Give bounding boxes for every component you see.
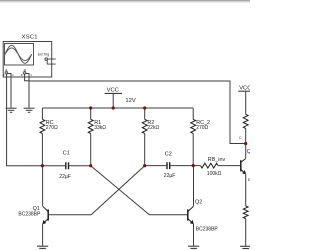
transistor Q1 BC238BP	[18, 206, 48, 224]
ground under Q2	[188, 246, 199, 250]
svg-text:XSC1: XSC1	[22, 34, 38, 40]
node inverter output	[244, 142, 247, 145]
oscilloscope XSC1 body	[3, 42, 52, 78]
node Q2 collector/C2/RB_inv	[192, 164, 195, 167]
wire R1 top lead	[90, 108, 92, 119]
ground under scope B	[24, 108, 35, 112]
wire RC top lead	[41, 108, 43, 119]
svg-text:33kΩ: 33kΩ	[94, 125, 106, 131]
wire Q1 collector lead	[42, 166, 44, 206]
wire VCC rail	[42, 107, 193, 109]
wire RB_inv to Q3 base	[218, 165, 240, 167]
oscilloscope channel A terminal	[3, 69, 14, 76]
wire RC_2 bottom lead	[192, 134, 194, 166]
svg-text:E: E	[248, 178, 250, 182]
svg-text:VCC: VCC	[107, 87, 119, 93]
wire cross-couple C2 node to Q1 base	[49, 166, 145, 215]
capacitor C2 22uF	[164, 151, 176, 179]
ground under scope A	[6, 108, 17, 112]
wire A- to ground	[8, 74, 11, 108]
node R1/VCC rail junction	[89, 106, 92, 109]
wire RC_2 top lead	[192, 108, 194, 119]
transistor Q3	[241, 149, 254, 174]
svg-text:22kΩ: 22kΩ	[147, 125, 159, 131]
svg-text:12V: 12V	[125, 98, 135, 104]
node Q1 collector/C1	[41, 164, 44, 167]
capacitor C1 22uF	[59, 150, 71, 180]
node R2/VCC rail junction	[143, 106, 146, 109]
power VCC (inverter branch)	[238, 86, 252, 115]
wire C2 node line	[145, 165, 194, 167]
wire load resistor to output node	[245, 128, 247, 143]
resistor R2 22k	[142, 119, 159, 133]
svg-text:100kΩ: 100kΩ	[207, 171, 222, 177]
resistor RB_inv 100k	[201, 157, 226, 177]
svg-text:BC238BP: BC238BP	[196, 226, 219, 232]
svg-text:BC238BP: BC238BP	[18, 212, 41, 218]
transistor Q2 BC238BP	[188, 200, 219, 233]
ground under Q3	[240, 246, 251, 250]
wire R1 bottom lead	[90, 134, 92, 166]
svg-text:270Ω: 270Ω	[46, 125, 58, 131]
wire Q1 emitter lead	[42, 224, 44, 246]
svg-text:Q2: Q2	[195, 200, 202, 206]
node Q2 base/C1/R1	[89, 164, 92, 167]
wire Q3 emitter lead	[245, 174, 247, 206]
resistor collector load (right branch)	[243, 114, 248, 128]
wire node to RB_inv	[193, 165, 200, 167]
wire Q3 collector lead	[245, 144, 247, 159]
top window edge band	[0, 0, 250, 3]
svg-text:22µF: 22µF	[164, 173, 176, 179]
svg-text:C1: C1	[63, 150, 70, 156]
wire emitter resistor to ground	[245, 219, 247, 246]
svg-text:Ext Trig: Ext Trig	[38, 53, 50, 57]
wire C1 node line	[42, 165, 90, 167]
ground under Q1	[37, 246, 48, 250]
wire B probe to inverter output node	[29, 81, 246, 144]
resistor emitter load (right branch)	[243, 206, 248, 219]
wire Q2 emitter lead	[193, 224, 195, 246]
svg-text:22µF: 22µF	[59, 174, 71, 180]
wire Q2 collector lead	[193, 166, 195, 206]
wire RC bottom lead	[41, 134, 43, 166]
power VCC 12V	[105, 87, 136, 108]
resistor R1 33k	[88, 119, 106, 133]
wire cross-couple C1 node to Q2 base	[91, 166, 188, 215]
oscilloscope XSC1 screen with waveform	[5, 44, 34, 66]
oscilloscope channel B terminal	[21, 69, 32, 76]
wire A+ probe to Q1 collector node	[7, 74, 43, 166]
wire R2 top lead	[144, 108, 146, 119]
wire B ground lead	[25, 74, 29, 108]
node VCC feed junction	[112, 106, 115, 109]
svg-text:RB_inv: RB_inv	[208, 157, 226, 163]
svg-text:Q3: Q3	[247, 149, 250, 155]
svg-text:C2: C2	[165, 151, 172, 157]
node Q1 base/C2/R2	[143, 164, 146, 167]
wire R2 bottom lead	[144, 134, 146, 166]
svg-text:270Ω: 270Ω	[196, 125, 208, 131]
resistor RC_2 270ohm	[191, 119, 210, 133]
resistor RC 270ohm	[40, 119, 58, 133]
oscilloscope ext-trig pin	[45, 58, 56, 64]
